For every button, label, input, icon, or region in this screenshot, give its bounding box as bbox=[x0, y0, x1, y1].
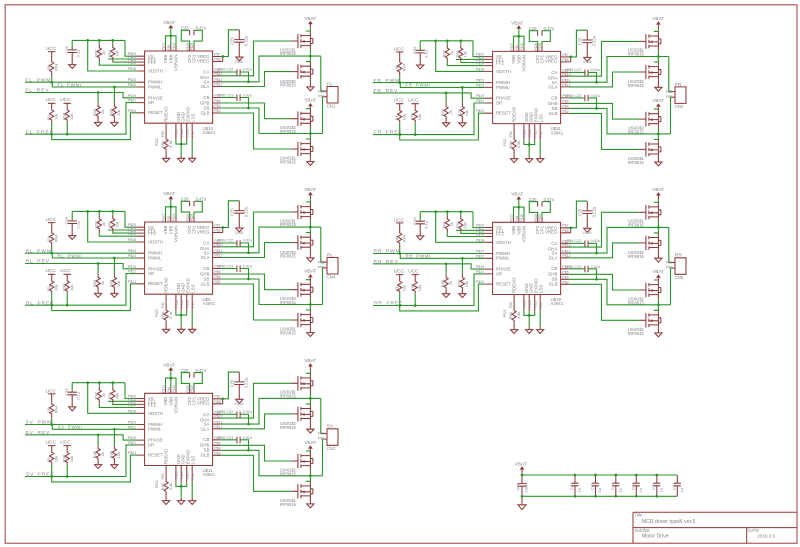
svg-text:U$5: U$5 bbox=[203, 297, 212, 302]
svg-text:RR: RR bbox=[675, 253, 682, 259]
svg-text:1u: 1u bbox=[659, 488, 664, 492]
svg-text:FL_FREE: FL_FREE bbox=[26, 129, 54, 135]
svg-text:1u: 1u bbox=[638, 488, 643, 492]
svg-text:RR_REV: RR_REV bbox=[374, 259, 399, 265]
svg-text:SV_FREE: SV_FREE bbox=[26, 472, 55, 478]
svg-text:SV: SV bbox=[327, 424, 334, 430]
svg-text:FL_PWMI: FL_PWMI bbox=[58, 82, 82, 87]
svg-text:CN1: CN1 bbox=[327, 104, 336, 109]
svg-text:FR_REV: FR_REV bbox=[374, 88, 399, 94]
svg-text:CN4: CN4 bbox=[327, 275, 336, 280]
svg-text:CN2: CN2 bbox=[675, 104, 684, 109]
svg-text:RL: RL bbox=[327, 252, 333, 258]
svg-text:SV_PWM: SV_PWM bbox=[26, 420, 53, 426]
svg-text:FR_PWM: FR_PWM bbox=[374, 78, 401, 84]
svg-text:C21: C21 bbox=[671, 482, 676, 490]
svg-text:CN5: CN5 bbox=[675, 275, 684, 280]
svg-text:1u: 1u bbox=[597, 488, 602, 492]
svg-text:RL_REV: RL_REV bbox=[26, 259, 50, 265]
svg-text:1u: 1u bbox=[577, 488, 582, 492]
svg-text:SubTitle: SubTitle bbox=[635, 528, 651, 533]
svg-text:RR_PWM: RR_PWM bbox=[374, 249, 401, 255]
svg-text:C43: C43 bbox=[590, 482, 595, 490]
svg-text:1u: 1u bbox=[618, 488, 623, 492]
svg-text:C20: C20 bbox=[651, 482, 656, 490]
svg-text:FR_FREE: FR_FREE bbox=[374, 130, 403, 136]
svg-text:U$31: U$31 bbox=[551, 126, 562, 131]
svg-text:U$11: U$11 bbox=[203, 468, 214, 473]
svg-text:CN3: CN3 bbox=[327, 446, 336, 451]
svg-text:FL_REV: FL_REV bbox=[26, 88, 50, 94]
svg-text:SV_REV: SV_REV bbox=[26, 430, 51, 436]
svg-text:Motor Drive: Motor Drive bbox=[642, 534, 669, 540]
svg-text:RR_PWMI: RR_PWMI bbox=[406, 254, 432, 259]
svg-text:RL_PWM: RL_PWM bbox=[26, 248, 52, 254]
svg-text:DATE: DATE bbox=[748, 528, 759, 533]
svg-text:C41: C41 bbox=[569, 482, 574, 490]
svg-text:2019.3.9: 2019.3.9 bbox=[757, 534, 775, 539]
svg-text:RR_FREE: RR_FREE bbox=[374, 301, 403, 307]
svg-text:MCR driver typeK ver.5: MCR driver typeK ver.5 bbox=[642, 519, 696, 525]
svg-text:VBAT: VBAT bbox=[515, 461, 527, 467]
svg-text:FR_PWMI: FR_PWMI bbox=[406, 83, 431, 88]
svg-text:SV_PWMI: SV_PWMI bbox=[58, 425, 83, 430]
svg-text:FR: FR bbox=[675, 82, 682, 88]
svg-text:100u: 100u bbox=[524, 484, 529, 493]
svg-text:1u: 1u bbox=[679, 488, 684, 492]
svg-text:C13: C13 bbox=[610, 482, 615, 490]
svg-text:RL_FREE: RL_FREE bbox=[26, 300, 54, 306]
svg-text:Title: Title bbox=[635, 513, 643, 518]
svg-text:RL_PWMI: RL_PWMI bbox=[58, 253, 83, 258]
svg-text:U$13: U$13 bbox=[203, 126, 214, 131]
svg-text:C61: C61 bbox=[515, 482, 520, 490]
svg-text:C19: C19 bbox=[630, 482, 635, 490]
svg-text:FL_PWM: FL_PWM bbox=[26, 77, 52, 83]
svg-text:U$19: U$19 bbox=[551, 297, 562, 302]
svg-text:FL: FL bbox=[327, 81, 333, 87]
